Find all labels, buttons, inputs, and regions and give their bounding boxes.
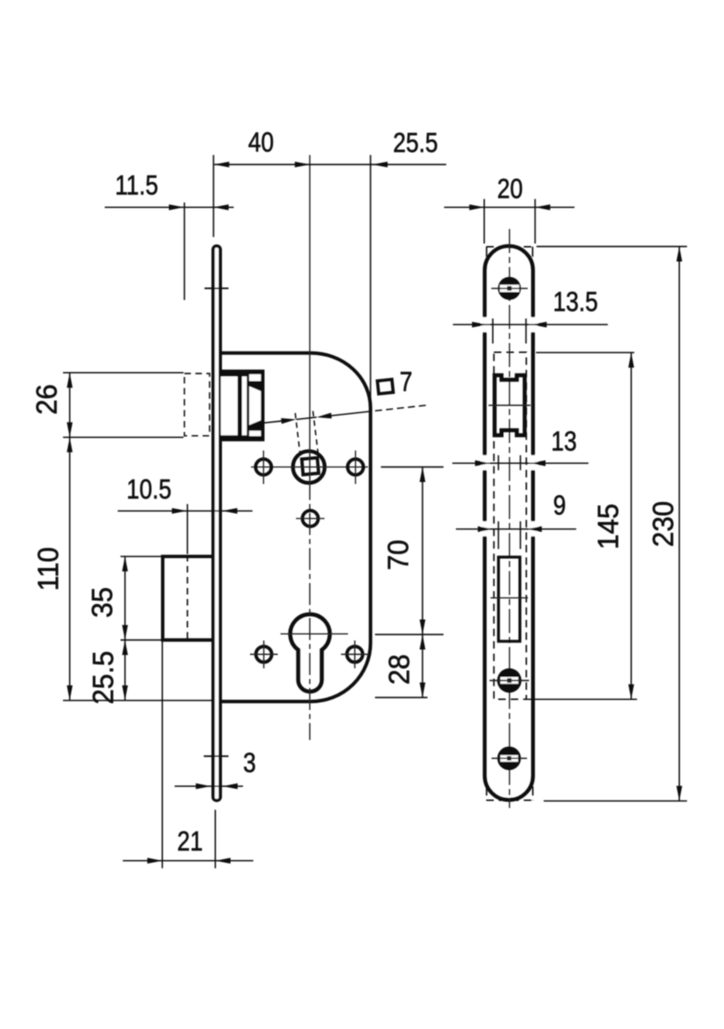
leader line solid part	[329, 411, 372, 416]
dim line 21	[123, 860, 254, 862]
arrows 145	[628, 353, 634, 368]
ticks 13	[497, 455, 499, 470]
faceplate outline (front view)	[485, 246, 533, 800]
latch opening center mark	[489, 404, 531, 406]
arrow at case edge	[373, 162, 388, 168]
projection dash L2	[313, 411, 318, 455]
euro cylinder hole (side view)	[290, 614, 330, 691]
lock case body (side view)	[222, 353, 371, 702]
deadbolt opening center mark	[491, 597, 529, 599]
dim line 230	[678, 247, 680, 801]
arrows 26	[67, 373, 73, 388]
ext line latch bottom	[63, 436, 184, 438]
svg-text:13.5: 13.5	[553, 287, 598, 317]
arrows 25.5 left	[122, 640, 128, 655]
leader arrow left	[281, 418, 296, 424]
dim line 11.5	[105, 206, 234, 208]
svg-text:7: 7	[400, 367, 413, 397]
ext line 11.5	[183, 203, 185, 301]
vertical center line lower (side view)	[309, 478, 311, 740]
vertical center line upper (side view)	[309, 155, 311, 478]
center line through spindle row	[251, 466, 368, 468]
tick	[355, 451, 357, 485]
ticks 13.5	[492, 319, 494, 344]
projection dash L1	[295, 413, 300, 456]
arrow 3 right	[223, 783, 238, 789]
deadbolt (side view)	[163, 556, 213, 640]
svg-text:230: 230	[646, 501, 679, 547]
ext line 21 left	[161, 642, 163, 869]
dim line 70	[422, 467, 424, 635]
faceplate tick bottom	[204, 755, 229, 757]
dim line 9	[456, 528, 576, 530]
svg-text:25.5: 25.5	[86, 651, 119, 705]
screw hole bottom ticks	[492, 757, 528, 759]
arrow at spindle axis	[295, 162, 310, 168]
dim line 26	[69, 373, 71, 438]
svg-text:26: 26	[30, 384, 63, 415]
hole below spindle	[302, 511, 318, 527]
arrow 21 left	[147, 858, 162, 864]
leader line dashed part	[372, 405, 426, 411]
ext line 145 top	[536, 352, 634, 354]
dim line 28	[422, 635, 424, 698]
arrow 10.5 left	[172, 508, 187, 514]
case projection dashed rect	[494, 352, 526, 699]
arrow 13 right	[531, 460, 546, 466]
plate projection dashed bottom edge	[486, 799, 533, 801]
ext line cylinder axis right	[375, 634, 444, 636]
svg-text:10.5: 10.5	[127, 475, 172, 505]
svg-text:9: 9	[553, 491, 566, 521]
svg-text:110: 110	[31, 547, 64, 591]
ext line deadbolt top	[121, 555, 162, 557]
ext line 145 bottom	[527, 698, 637, 700]
plate projection dashed top edge	[486, 246, 533, 248]
screw hole top	[498, 277, 521, 300]
svg-text:145: 145	[592, 504, 625, 550]
arrow at faceplate	[214, 162, 229, 168]
svg-text:70: 70	[381, 540, 414, 571]
latch bolt (side view)	[220, 370, 265, 442]
hole right of spindle	[348, 459, 364, 475]
arrows 70	[420, 467, 426, 482]
latch opening (front view)	[495, 375, 525, 435]
dim line 3	[175, 785, 243, 787]
tick	[296, 518, 325, 520]
leader tail to latch	[264, 421, 282, 423]
dim line 25.5 left	[124, 640, 126, 700]
dim line 110	[69, 437, 71, 700]
arrow 13.5 left	[472, 322, 487, 328]
dim line 145	[630, 353, 632, 700]
arrow 9 right	[527, 526, 542, 532]
arrow 3 left	[196, 783, 211, 789]
dim line 35	[124, 556, 126, 640]
ext line latch top	[63, 372, 184, 374]
ext tick 10.5	[186, 504, 188, 554]
square symbol	[377, 379, 393, 393]
arrow 20 left	[469, 204, 484, 210]
arrow 11.5 right	[214, 204, 229, 210]
screw hole middle	[497, 668, 521, 692]
svg-text:25.5: 25.5	[393, 128, 438, 158]
dim line 40/25.5	[214, 164, 446, 166]
plate projection dashed top corner stubs	[486, 247, 488, 264]
faceplate tick top	[205, 287, 229, 289]
faceplate edge-on (side view)	[213, 246, 220, 801]
svg-text:13: 13	[551, 427, 577, 457]
hole right of cylinder	[347, 646, 363, 662]
arrow 9 left	[478, 526, 493, 532]
tick	[263, 451, 265, 485]
ext line deadbolt bottom	[121, 639, 162, 641]
dim line 10.5	[118, 510, 253, 512]
screw hole middle ticks	[490, 680, 530, 682]
svg-text:28: 28	[382, 654, 415, 685]
latch projection dashed rect	[184, 374, 209, 436]
screw hole top ticks	[491, 287, 527, 289]
arrow 21 right	[216, 858, 231, 864]
spindle follower circle	[293, 451, 325, 483]
plate projection dashed bottom corner stubs	[486, 787, 488, 801]
arrow 13.5 right	[532, 322, 547, 328]
arrow 20 right	[535, 204, 550, 210]
svg-text:40: 40	[248, 128, 274, 158]
arrows 35	[122, 556, 128, 571]
ext line 21 right	[214, 810, 216, 869]
arrow 10.5 right	[222, 508, 237, 514]
outline gaps at dimension crossings	[481, 317, 490, 332]
center line (front view)	[509, 229, 511, 808]
hole left of spindle	[256, 459, 272, 475]
dim line 20	[444, 206, 574, 208]
arrows 28	[420, 635, 426, 650]
ext line 230 bottom	[544, 800, 687, 802]
ext line 230 top	[537, 246, 688, 248]
dim line 13	[452, 462, 588, 464]
ext lines 20	[483, 199, 485, 244]
svg-text:3: 3	[243, 748, 256, 778]
ext line case bottom left	[63, 699, 212, 701]
screw hole bottom	[497, 747, 521, 771]
svg-text:21: 21	[177, 827, 203, 857]
ext line faceplate top	[213, 155, 215, 237]
spindle square hole	[302, 458, 319, 475]
cylinder center line	[281, 633, 349, 635]
leader arrow right	[317, 413, 332, 419]
deadbolt opening (front view)	[499, 557, 520, 641]
arrow 13 left	[475, 460, 490, 466]
ticks	[341, 653, 369, 655]
svg-text:35: 35	[85, 587, 118, 618]
dim line 13.5	[453, 324, 608, 326]
arrows 110	[67, 437, 73, 452]
ext line case bottom right	[375, 697, 428, 699]
svg-text:20: 20	[497, 174, 523, 204]
ext line case right edge	[370, 155, 372, 405]
leader mid segment	[296, 417, 316, 419]
deadbolt dashed line	[186, 555, 188, 641]
ticks	[250, 653, 278, 655]
arrow 11.5 left	[169, 204, 184, 210]
svg-text:11.5: 11.5	[115, 171, 158, 201]
hole left of cylinder	[256, 646, 272, 662]
ext line spindle axis right	[381, 466, 444, 468]
ticks 9	[497, 521, 499, 549]
arrows 230	[676, 247, 682, 262]
